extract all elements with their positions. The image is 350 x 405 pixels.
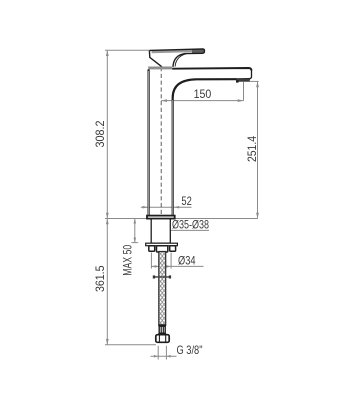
wire: MAX 50 dimension line [134, 219, 136, 243]
svg-text:361.5: 361.5 [93, 265, 107, 292]
handle rear edge [149, 50, 162, 66]
svg-text:52: 52 [181, 194, 192, 208]
svg-text:251.4: 251.4 [245, 136, 259, 162]
arrow 308.2 top [106, 50, 109, 56]
svg-text:Ø34: Ø34 [178, 254, 196, 268]
wire: dimension line 52 [141, 206, 192, 208]
wire: dimension line 251.4 [257, 81, 259, 218]
arrow 150 left [161, 99, 167, 102]
wire: left dimension line 308.2 + 361.5 [106, 50, 108, 345]
arrow 150 right [238, 99, 244, 102]
wire: bottom extension line at hose nut [105, 344, 156, 346]
svg-text:150: 150 [194, 87, 212, 101]
body left edge [148, 69, 150, 215]
centerline (dashed) [160, 67, 162, 246]
hose side bar fitting [153, 275, 171, 278]
wire: extension line at aerator for 150 [243, 82, 245, 101]
lever outline [149, 49, 204, 67]
neck inner curve [175, 54, 187, 67]
arrow Ø38 right [165, 229, 170, 232]
body right edge inner white split [172, 100, 174, 215]
aerator [236, 79, 250, 82]
wire: G3/8 right extension line [165, 346, 167, 360]
svg-text:MAX 50: MAX 50 [121, 245, 135, 276]
wire: G3/8 dimension line [151, 355, 177, 357]
wire: G3/8 left extension line [157, 346, 159, 360]
spout underside + body right edge [173, 79, 237, 215]
arrow Ø35 left [151, 229, 156, 232]
wire: deck/counter extension line [105, 218, 258, 220]
mounting nut (three lobes) [149, 246, 176, 252]
arrow G3/8 left [154, 355, 158, 358]
arrow MAX50 bottom [134, 238, 137, 243]
wire: Ø34 right extension line [170, 253, 172, 269]
cartridge collar (gray) [148, 67, 172, 70]
hose end ferrule [158, 325, 166, 335]
arrow 251.4 bottom [256, 213, 259, 219]
wire: MAX 50 bottom tick [131, 242, 138, 244]
arrowheads for dimensions [106, 50, 259, 357]
threaded shank below deck [151, 219, 170, 243]
washer plate [146, 243, 178, 246]
wire: top extension line to handle top [105, 49, 149, 51]
spout right edge [237, 70, 252, 79]
aerator nub [236, 80, 239, 82]
lever top gray shading band [152, 49, 204, 53]
braided hose [159, 252, 166, 325]
wire: Ø34 dimension line with text underline [151, 265, 203, 267]
arrow 52 right [174, 206, 179, 209]
svg-text:Ø35-Ø38: Ø35-Ø38 [172, 218, 209, 232]
body flange at deck [147, 216, 175, 219]
wire: dimension line 150 [161, 100, 243, 102]
svg-text:308.2: 308.2 [93, 120, 107, 147]
svg-text:G 3/8": G 3/8" [177, 343, 203, 357]
handle lever [149, 49, 204, 67]
spout top edge [172, 68, 251, 71]
hose hex nut G3/8 [156, 335, 169, 343]
arrow Ø34 left [151, 265, 156, 268]
arrow 251.4 top [256, 81, 259, 87]
body left edge inner white split [148, 71, 150, 215]
arrow G3/8 right [166, 355, 170, 358]
arrow 52 left [143, 206, 148, 209]
wire: dimension line Ø35-Ø38 with text underline [151, 229, 209, 231]
arrow MAX50 top [134, 219, 137, 224]
wire: Ø34 left extension line [150, 253, 152, 269]
arrow Ø34 right [166, 265, 171, 268]
arrow 361.5 bottom [106, 339, 109, 345]
lever tip gray fill [192, 49, 204, 53]
wire: extension line at aerator for 251.4 [249, 80, 259, 82]
arrow 308.2 bottom / 361.5 top [106, 213, 109, 219]
